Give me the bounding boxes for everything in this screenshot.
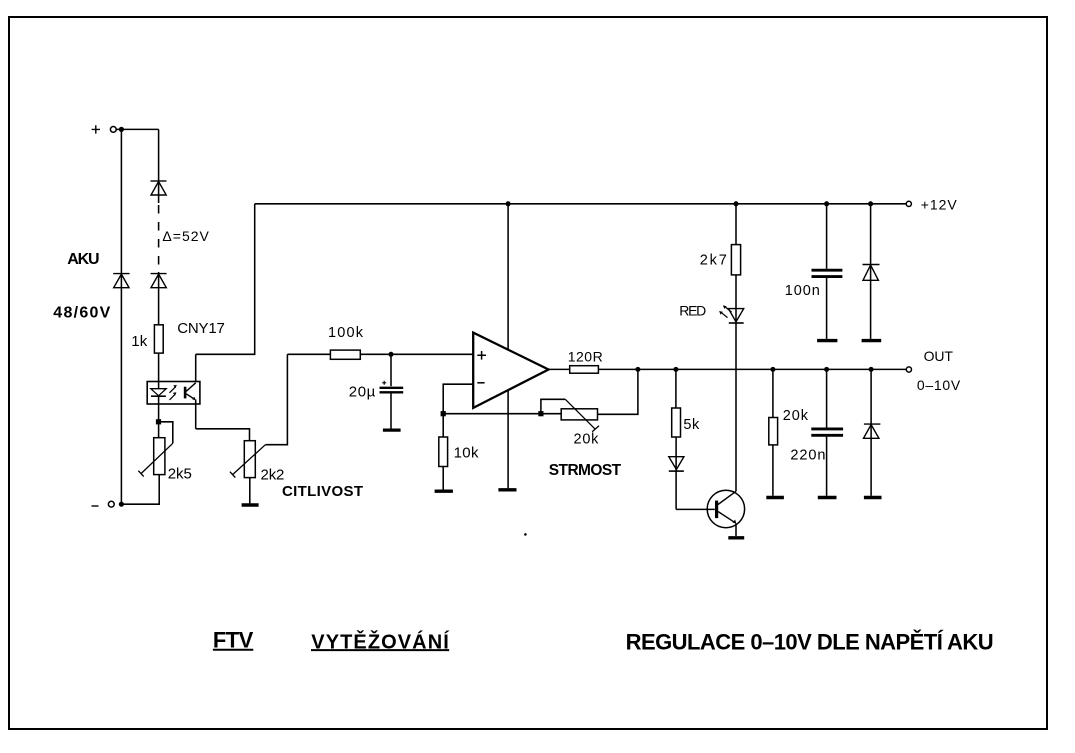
wire 2k5 wiper tie xyxy=(159,422,173,444)
junction output node xyxy=(635,367,640,372)
capacitor 100n xyxy=(812,204,843,339)
ground 20k out xyxy=(766,496,784,499)
wire dashed delta link xyxy=(158,205,160,272)
ground 20u xyxy=(383,428,401,431)
svg-text:120R: 120R xyxy=(568,348,603,364)
node OUT terminal xyxy=(906,367,911,372)
diode D3 (left rail) xyxy=(113,274,129,288)
svg-text:2k7: 2k7 xyxy=(700,252,727,268)
svg-text:2k5: 2k5 xyxy=(168,466,192,483)
junction LED cathode node xyxy=(156,419,161,424)
ground 2k2 xyxy=(242,503,259,506)
diode D1 xyxy=(151,181,167,195)
ground 100n xyxy=(817,339,837,342)
optocoupler CNY17 box xyxy=(147,382,200,405)
wire rail to D6 xyxy=(870,204,872,339)
svg-text:5k: 5k xyxy=(683,417,700,433)
wire 10k stem xyxy=(442,467,444,490)
wire 1k to optocoupler xyxy=(158,353,160,381)
node +12V terminal xyxy=(906,201,911,206)
junction rail zener xyxy=(868,201,873,206)
ground transistor emitter xyxy=(728,536,744,539)
ground D6 xyxy=(862,339,882,342)
resistor 20k out xyxy=(769,418,778,445)
wire op-amp output xyxy=(549,368,570,370)
ground op-amp power xyxy=(498,488,516,491)
wire 2k5 to minus xyxy=(121,475,159,505)
junction at minus terminal xyxy=(119,502,124,507)
stray ink dot xyxy=(524,533,527,536)
svg-text:10k: 10k xyxy=(454,445,479,462)
wire D4 to base xyxy=(676,508,715,510)
wire to 100k xyxy=(287,353,330,355)
wire 2k2 bottom stem xyxy=(249,478,251,504)
wire 2k7 to LED xyxy=(735,275,737,491)
wire op-amp power from rail xyxy=(507,204,509,488)
wire 20k stem xyxy=(772,445,774,496)
wire OUT rail xyxy=(598,368,906,370)
svg-text:48/60V: 48/60V xyxy=(53,305,110,322)
diode D2 xyxy=(151,274,167,288)
junction zener out node xyxy=(869,367,874,372)
wire feedback bottom xyxy=(443,413,561,415)
wire 5k to D4 xyxy=(675,437,677,509)
potentiometer 2k5 xyxy=(138,438,173,477)
svg-text:REGULACE 0–10V DLE NAPĚTÍ AKU: REGULACE 0–10V DLE NAPĚTÍ AKU xyxy=(626,630,994,655)
svg-text:CITLIVOST: CITLIVOST xyxy=(282,483,363,500)
resistor 10k xyxy=(439,437,448,467)
junction rail 2k7 xyxy=(734,201,739,206)
wire emitter stem xyxy=(735,523,737,536)
ground 10k xyxy=(435,490,453,493)
svg-text:0–10V: 0–10V xyxy=(917,377,961,393)
wire left battery rail xyxy=(120,129,122,504)
capacitor 20u xyxy=(380,354,404,428)
ground 220n xyxy=(818,496,837,499)
wire emitter to 2k2 xyxy=(196,429,250,441)
wire 100k to op-amp plus input xyxy=(360,353,473,355)
wire out to 20k xyxy=(772,369,774,417)
node battery minus terminal xyxy=(92,501,115,507)
wire +12V feed corner xyxy=(196,204,255,354)
wire +12V rail xyxy=(255,203,907,205)
optocoupler phototransistor xyxy=(184,383,196,401)
wire D2 to 1k xyxy=(158,272,160,325)
potentiometer 20k STRMOST xyxy=(561,399,599,431)
diode D6 xyxy=(863,265,880,281)
wire opto LED to 2k5 xyxy=(158,404,160,438)
junction rail op-amp power xyxy=(506,201,511,206)
wire plus to diode string xyxy=(116,128,158,130)
svg-text:STRMOST: STRMOST xyxy=(549,462,622,479)
resistor 5k xyxy=(672,408,681,437)
junction 5k node xyxy=(673,367,678,372)
svg-text:1k: 1k xyxy=(131,333,148,350)
resistor 120R xyxy=(570,366,599,374)
junction rail 100n xyxy=(824,201,829,206)
capacitor 220n xyxy=(811,369,843,495)
junction 20k wiper node xyxy=(538,411,543,416)
svg-text:AKU: AKU xyxy=(67,251,99,268)
transistor Q1 xyxy=(707,490,744,527)
svg-text:OUT: OUT xyxy=(924,348,954,364)
junction 220n node xyxy=(824,367,829,372)
optocoupler LED xyxy=(151,382,166,405)
wire emitter down xyxy=(195,400,197,429)
svg-text:20µ: 20µ xyxy=(349,384,376,401)
svg-text:100k: 100k xyxy=(328,325,364,341)
svg-text:220n: 220n xyxy=(790,447,825,463)
junction noninverting node xyxy=(389,352,394,357)
resistor 2k7 xyxy=(731,245,740,275)
optocoupler light arrows xyxy=(170,385,177,400)
LED RED arrows xyxy=(719,305,731,317)
junction inverting node xyxy=(441,411,446,416)
svg-text:100n: 100n xyxy=(785,283,820,299)
wire collector up xyxy=(195,354,197,381)
svg-text:RED: RED xyxy=(679,303,706,319)
wire 2k2 wiper up xyxy=(265,354,287,444)
wire inverting input xyxy=(443,384,473,414)
node battery plus terminal xyxy=(92,125,117,133)
svg-text:CNY17: CNY17 xyxy=(177,320,225,337)
op-amp plus sign xyxy=(477,351,486,360)
LED RED xyxy=(728,309,743,323)
wire out to 5k xyxy=(675,369,677,408)
wire top of D1 xyxy=(158,129,160,203)
junction 20k out node xyxy=(770,367,775,372)
svg-text:20k: 20k xyxy=(574,431,600,447)
wire to 10k xyxy=(442,414,444,437)
junction at plus terminal xyxy=(119,127,124,132)
wire out to D5 xyxy=(870,369,872,495)
svg-text:Δ=52V: Δ=52V xyxy=(162,228,209,244)
op-amp minus sign xyxy=(477,382,484,384)
svg-text:20k: 20k xyxy=(783,408,809,424)
op-amp U1 xyxy=(473,333,548,408)
potentiometer 2k2 xyxy=(230,441,266,478)
ground D5 xyxy=(864,496,882,499)
wire rail to 2k7 xyxy=(735,204,737,245)
svg-text:+12V: +12V xyxy=(921,196,958,212)
diode D5 xyxy=(864,424,881,438)
diode D4 xyxy=(669,457,684,471)
resistor 100k xyxy=(330,350,360,359)
resistor 1k xyxy=(154,325,163,353)
wire 20k right to output xyxy=(598,369,638,414)
wire 20k wiper xyxy=(541,399,565,413)
svg-text:2k2: 2k2 xyxy=(261,467,285,484)
